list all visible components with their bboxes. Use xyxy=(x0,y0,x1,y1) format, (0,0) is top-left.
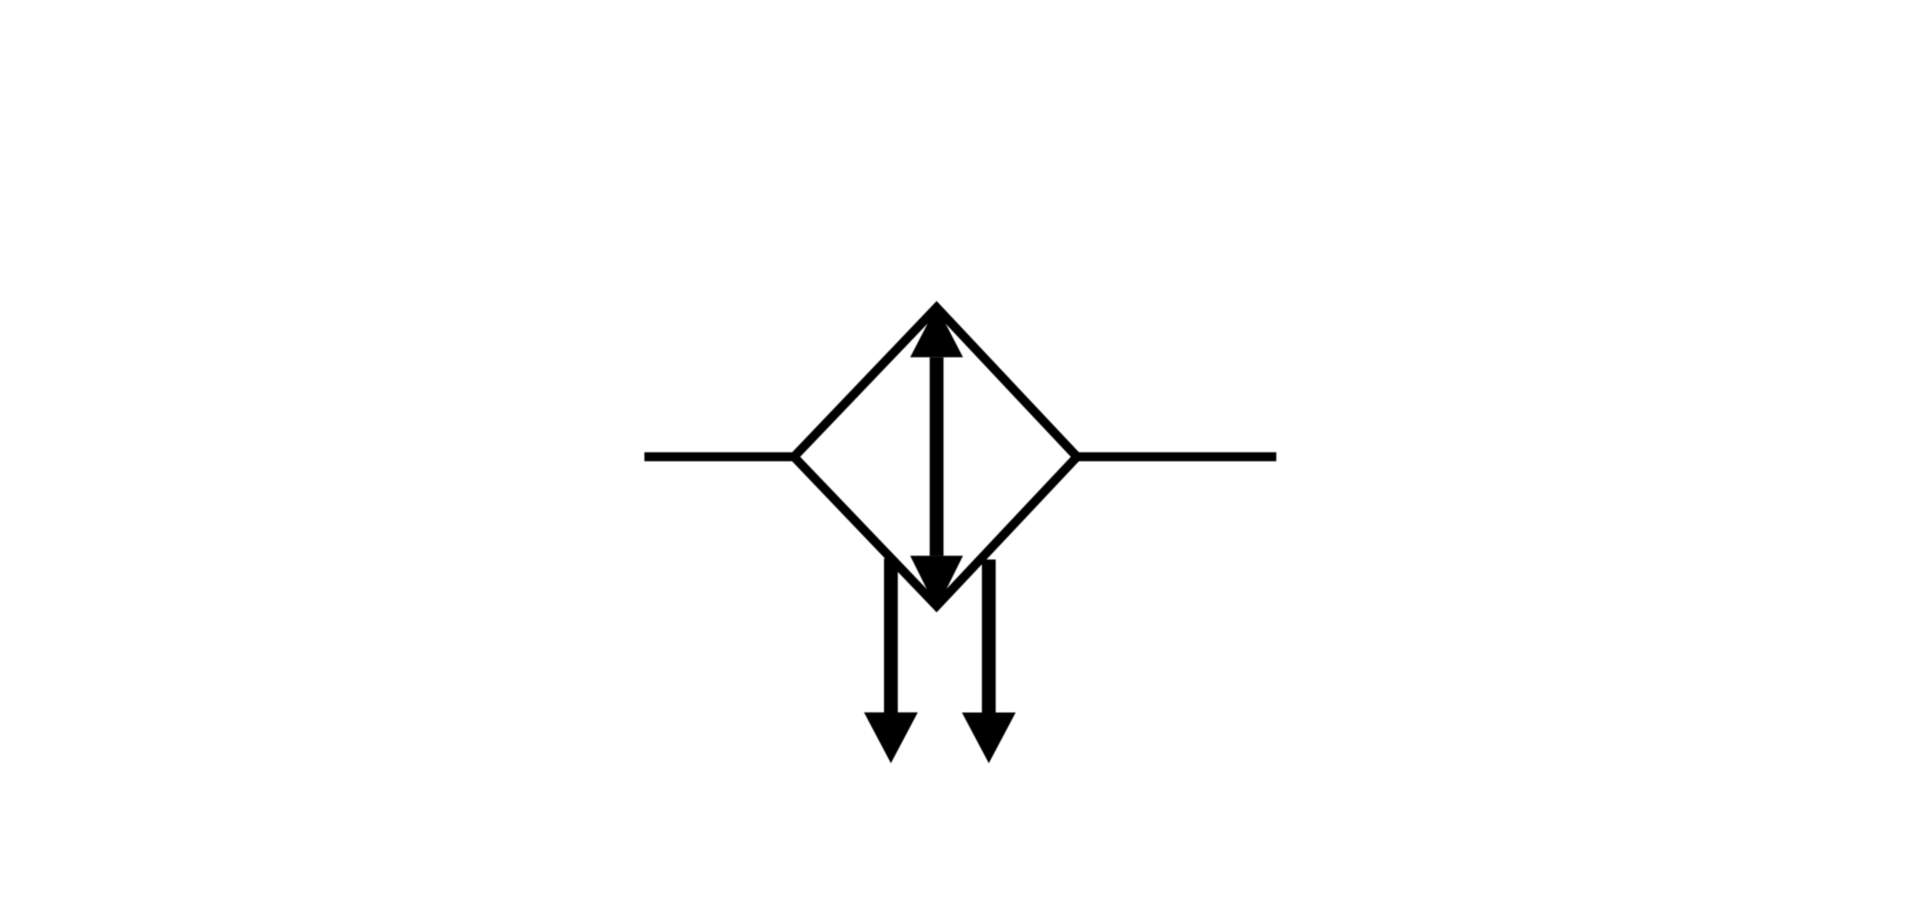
drain arrow right shaft xyxy=(982,560,996,714)
drain arrow left shaft xyxy=(884,559,898,714)
separator arrowhead down xyxy=(910,556,963,609)
separator arrowhead up xyxy=(910,306,963,357)
wire left port xyxy=(644,452,794,461)
separator double-headed arrow shaft xyxy=(930,357,944,556)
filter body (diamond) xyxy=(794,308,1077,606)
drain arrow right head xyxy=(962,713,1016,764)
drain arrow left head xyxy=(864,712,918,763)
wire right port xyxy=(1077,452,1276,461)
